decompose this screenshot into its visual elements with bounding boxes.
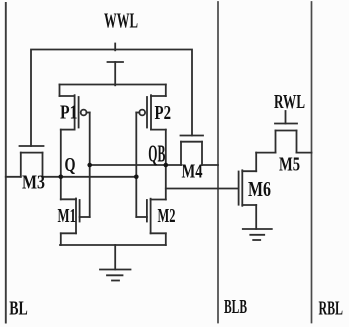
svg-text:QB: QB — [148, 142, 165, 168]
svg-text:M6: M6 — [248, 177, 271, 201]
wire Q horizontal (incl. M3 right lead) — [43, 176, 137, 178]
node BL bitline — [5, 3, 7, 323]
wire WWL label stub — [114, 44, 116, 51]
svg-text:Q: Q — [65, 154, 76, 176]
wire RWL label stub — [285, 111, 287, 124]
svg-text:BLB: BLB — [224, 296, 247, 318]
transistor P1 — [60, 85, 90, 130]
ground (read stack) — [243, 229, 272, 240]
svg-text:M4: M4 — [182, 160, 203, 182]
junction node QB — [164, 163, 169, 168]
wire M5 source drop to M6 drain — [255, 153, 257, 172]
transistor M2 — [136, 199, 166, 245]
ground (cell) — [100, 245, 131, 281]
wire bottom rail — [60, 244, 166, 246]
power VDD tap — [108, 62, 124, 85]
node RBL bitline — [311, 2, 313, 323]
junction node Q / P2 gate — [134, 175, 139, 180]
node BLB bitline — [217, 2, 219, 323]
transistor M6 — [239, 170, 257, 229]
transistor M5 — [256, 124, 311, 153]
svg-text:M3: M3 — [22, 172, 45, 194]
transistor M4 — [181, 136, 219, 166]
junction node Q — [59, 175, 64, 180]
svg-text:P2: P2 — [155, 102, 172, 124]
transistor P2 — [136, 85, 166, 130]
svg-text:WWL: WWL — [104, 8, 138, 32]
transistor M3 — [6, 146, 44, 177]
junction node QB / P1 gate — [87, 163, 92, 168]
wire M6 gate from QB line — [166, 188, 239, 190]
wire node Q drain line (left inverter) — [60, 130, 62, 200]
wire QB horizontal (incl. M4 left lead) — [90, 164, 181, 166]
wire WWL rail — [31, 50, 192, 147]
svg-text:M1: M1 — [58, 205, 77, 227]
svg-text:M2: M2 — [158, 205, 176, 227]
svg-text:BL: BL — [9, 298, 28, 320]
svg-text:RBL: RBL — [319, 297, 344, 319]
wire P1-gate / M1-gate cross-couple drop — [89, 113, 91, 218]
svg-text:RWL: RWL — [274, 91, 305, 113]
wire node QB drain line (right inverter) — [165, 130, 167, 200]
transistor M1 — [61, 199, 90, 246]
svg-text:P1: P1 — [60, 102, 78, 124]
wire cell supply rail (box top) — [60, 84, 166, 86]
svg-text:M5: M5 — [279, 153, 300, 175]
wire P2-gate / M2-gate cross-couple drop — [135, 113, 137, 218]
